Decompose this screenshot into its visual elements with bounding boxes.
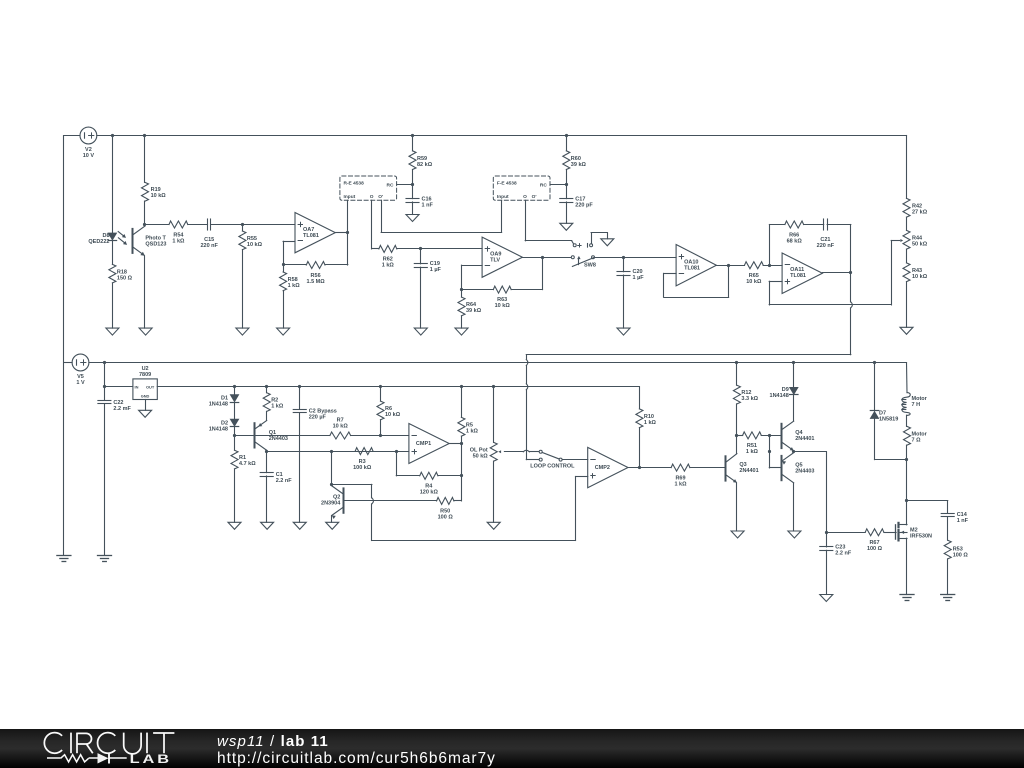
wire R66 branch	[769, 225, 785, 266]
resistor R66	[785, 221, 804, 228]
wire C15 to OA7	[211, 223, 295, 226]
label R1	[239, 455, 256, 467]
capacitor C21	[824, 219, 828, 230]
wire Q1 collector to node	[266, 449, 268, 452]
label R69	[674, 475, 687, 487]
wire R66 to C21	[804, 224, 824, 226]
node OA7 output	[346, 231, 349, 234]
svg-text:TL081: TL081	[303, 233, 319, 239]
svg-text:2.2 nF: 2.2 nF	[835, 550, 852, 556]
wire C14 to R53	[947, 517, 949, 541]
resistor R64	[458, 290, 465, 316]
label SW8	[584, 263, 596, 269]
wire R2 to Q1 emitter	[266, 411, 268, 420]
svg-text:10 kΩ: 10 kΩ	[912, 274, 928, 280]
label C1	[276, 472, 293, 484]
label D7	[879, 411, 898, 423]
resistor R54	[169, 221, 188, 228]
wire R65 to OA11	[763, 265, 782, 267]
logo resistor-diode glyph	[47, 757, 61, 759]
node R58/R56	[282, 263, 285, 266]
svg-text:1N4148: 1N4148	[209, 402, 228, 408]
wire R42 to R44	[906, 217, 908, 230]
ground below R58	[277, 328, 290, 335]
wire loop control down	[526, 355, 539, 460]
resistor R43	[903, 263, 910, 282]
op-amp OA11	[782, 253, 822, 294]
label M2	[910, 527, 932, 539]
svg-text:IRF530N: IRF530N	[910, 533, 932, 539]
node base tie mid	[768, 450, 771, 453]
transistor Q3	[726, 454, 737, 483]
ground below C16	[406, 215, 419, 222]
resistor R7	[330, 432, 351, 439]
resistor R63	[493, 286, 511, 293]
resistor R55	[239, 225, 246, 250]
ground below R18	[106, 328, 119, 335]
wire D9 to Q4	[793, 395, 795, 421]
wire V5 to left rail	[64, 362, 72, 364]
wire R4 to noninv	[396, 451, 419, 476]
resistor R42	[903, 198, 910, 217]
wire R-E RC pin	[397, 184, 413, 186]
svg-text:1N4148: 1N4148	[209, 426, 228, 432]
wire D1 to D2	[234, 403, 236, 420]
node D2/R1/Q1 base	[233, 434, 236, 437]
wire left rail down	[63, 136, 65, 556]
svg-text:1 V: 1 V	[76, 380, 85, 386]
resistor R59	[409, 136, 416, 185]
switch SW8	[571, 244, 594, 267]
svg-text:TL081: TL081	[790, 273, 806, 279]
label C2	[309, 409, 337, 421]
ground below C19	[414, 328, 427, 335]
wire Q2 collector up	[331, 451, 333, 485]
ground below C23	[820, 595, 833, 602]
label D1	[209, 396, 228, 408]
mosfet M2	[896, 523, 908, 541]
capacitor C16	[406, 184, 419, 202]
wire R6 to node	[380, 420, 382, 436]
svg-text:CMP2: CMP2	[595, 465, 610, 471]
label R64	[466, 302, 482, 314]
label Q5	[795, 463, 814, 475]
svg-text:1 nF: 1 nF	[422, 202, 434, 208]
resistor R67	[865, 529, 884, 536]
resistor R3	[355, 448, 373, 455]
wire to drain	[906, 460, 908, 525]
ground below R64	[455, 328, 468, 335]
ground below C20	[617, 328, 630, 335]
svg-text:QSD123: QSD123	[145, 242, 166, 248]
ground below U2	[139, 410, 152, 417]
resistor R12	[733, 363, 740, 436]
svg-text:10 kΩ: 10 kΩ	[495, 303, 511, 309]
wire to U2 IN	[104, 386, 132, 388]
svg-text:2N4401: 2N4401	[739, 468, 758, 474]
svg-text:10 kΩ: 10 kΩ	[746, 279, 762, 285]
wire V2 to left rail	[64, 135, 80, 137]
label R66	[787, 232, 803, 244]
pot R44	[903, 230, 910, 249]
label C15	[200, 237, 218, 249]
wire to loop control	[526, 354, 851, 356]
wire R1 to ground	[234, 469, 236, 522]
svg-text:OUT: OUT	[146, 385, 155, 390]
resistor R62	[379, 245, 397, 252]
op-amp OA10	[676, 245, 716, 286]
wire OA11 output	[823, 272, 851, 274]
wire photoT emitter to ground	[144, 256, 146, 328]
diode D1	[230, 387, 238, 403]
wire R-E O' pin	[381, 200, 501, 232]
label CMP2	[595, 465, 610, 471]
svg-text:100 Ω: 100 Ω	[867, 546, 883, 552]
ground left rail	[57, 556, 71, 562]
resistor R60	[563, 136, 570, 185]
wire R63 to OA9 output	[511, 257, 542, 289]
node OA9 output/R63	[541, 256, 544, 259]
wire C1 to ground	[266, 476, 268, 522]
svg-text:220 nF: 220 nF	[817, 243, 835, 249]
svg-text:O': O'	[378, 194, 383, 200]
transistor Q1	[255, 421, 267, 451]
wire R10 column	[639, 387, 641, 409]
wire OUT rail	[157, 385, 639, 388]
svg-text:1.5 MΩ: 1.5 MΩ	[307, 279, 326, 285]
wire OA11 noninv feedback	[769, 241, 891, 305]
wire D8 to R18	[112, 241, 114, 264]
svg-text:O: O	[370, 194, 374, 200]
comparator CMP1	[409, 424, 449, 464]
wire Q5 collector to ground	[793, 483, 795, 531]
label R54	[172, 233, 185, 245]
node R12/R51/Q3	[735, 434, 738, 437]
node Q4/Q5 emitter	[792, 450, 795, 453]
wire emitters to gate column	[794, 452, 827, 533]
wire CMP1 output down	[461, 444, 463, 476]
label R51	[746, 443, 759, 455]
one-shot R-E 4538 box	[340, 176, 397, 200]
svg-text:1N5819: 1N5819	[879, 417, 898, 423]
label CMP1	[416, 441, 431, 447]
ground below R55	[236, 328, 249, 335]
ground below M2	[900, 595, 914, 601]
wire R44 to R43	[906, 249, 908, 263]
ground below C17	[560, 223, 573, 230]
wire node down to R50	[461, 476, 463, 501]
wire node to R67	[826, 532, 865, 534]
ground below C22	[98, 556, 112, 562]
label D8	[88, 233, 109, 245]
label R12	[741, 390, 758, 402]
node CMP2 output	[638, 466, 641, 469]
label R55	[247, 236, 263, 248]
wire SW8 upper to ground	[591, 233, 607, 244]
wire OA11 out down	[851, 273, 853, 355]
label C19	[430, 261, 442, 273]
ground below Q5	[788, 531, 801, 538]
wire R51 to bases	[761, 435, 781, 437]
svg-text:100 kΩ: 100 kΩ	[353, 465, 372, 471]
label R5	[466, 422, 479, 434]
svg-text:SW8: SW8	[584, 263, 596, 269]
svg-text:220 nF: 220 nF	[200, 243, 218, 249]
wire R7 to CMP1	[351, 434, 409, 437]
wire R19 branch	[144, 136, 146, 183]
wire R43 to ground	[906, 282, 908, 328]
pot R44 wiper arrow	[891, 239, 903, 242]
resistor R19	[142, 182, 149, 201]
wire R62 to OA9	[397, 247, 482, 250]
wire snubber branch	[907, 501, 948, 514]
label R42	[912, 204, 928, 216]
wire R18 to ground	[112, 283, 114, 328]
wire OA7 inv input	[283, 241, 295, 265]
svg-text:R-E 4538: R-E 4538	[344, 181, 365, 187]
node Q2 collector	[330, 483, 333, 486]
node RC/R60/C17	[565, 183, 568, 186]
ground below OL Pot	[487, 522, 500, 529]
label R62	[382, 257, 395, 269]
wire C22 to ground	[104, 404, 106, 556]
svg-text:39 kΩ: 39 kΩ	[466, 308, 482, 314]
svg-text:10 kΩ: 10 kΩ	[247, 242, 263, 248]
wire node to R54	[145, 224, 169, 226]
wire node to R63	[462, 289, 494, 291]
capacitor C20	[617, 257, 630, 275]
svg-text:82 kΩ: 82 kΩ	[417, 162, 433, 168]
wire C16 to ground	[412, 202, 414, 215]
resistor R50	[437, 497, 454, 504]
wire R19 to node	[144, 201, 146, 224]
op-amp OA9	[482, 237, 522, 277]
wire R64 to ground	[461, 316, 463, 328]
svg-text:1 µF: 1 µF	[633, 275, 645, 281]
svg-text:27 kΩ: 27 kΩ	[912, 210, 928, 216]
label OL Pot	[470, 448, 489, 460]
svg-text:2N4403: 2N4403	[269, 436, 288, 442]
label OA10	[684, 260, 700, 272]
ground below phototransistor	[139, 328, 152, 335]
svg-text:10 V: 10 V	[83, 153, 95, 159]
wire M2 source to ground	[906, 538, 908, 594]
wire U2 GND	[145, 400, 147, 411]
label R2	[271, 398, 284, 410]
svg-text:O: O	[523, 194, 527, 200]
wire SW8 to OA10	[595, 256, 677, 259]
wire OA9 inv input	[462, 265, 483, 289]
resistor Motor 7ohm	[904, 426, 911, 445]
label R50	[438, 509, 454, 521]
svg-text:220 pF: 220 pF	[575, 202, 593, 208]
label Q1	[269, 430, 288, 442]
wire R4 to node	[438, 475, 462, 477]
resistor R18	[109, 264, 116, 283]
CircuitLab logo wordmark	[44, 733, 174, 767]
LED D8	[108, 232, 127, 245]
wire motor inductance to resistance	[906, 415, 908, 426]
svg-text:Input: Input	[344, 194, 356, 200]
ground below R1	[228, 522, 241, 529]
wire C17 to ground	[566, 202, 568, 223]
node motor/D7	[905, 458, 908, 461]
label R6	[385, 406, 401, 418]
wire D2 to node	[234, 427, 236, 436]
switch LOOP CONTROL	[539, 450, 562, 461]
label R10	[644, 414, 657, 426]
capacitor C15	[208, 219, 211, 230]
svg-text:50 kΩ: 50 kΩ	[473, 454, 489, 460]
label C14	[957, 512, 969, 524]
svg-text:7 H: 7 H	[912, 402, 921, 408]
node OA11 output	[849, 271, 852, 274]
svg-text:10 kΩ: 10 kΩ	[385, 412, 401, 418]
wire CMP2 feedback column	[372, 477, 588, 541]
wire F-E Input pin	[501, 200, 503, 232]
label Q3	[739, 462, 758, 474]
label R53	[953, 546, 969, 558]
wire right rail	[906, 136, 908, 199]
svg-text:2.2 nF: 2.2 nF	[276, 478, 293, 484]
wire R56 to OA7 output	[325, 233, 348, 265]
node CMP1 output	[460, 442, 463, 445]
svg-text:120 kΩ: 120 kΩ	[420, 490, 439, 496]
transistor Q4	[782, 421, 794, 451]
svg-text:LOOP CONTROL: LOOP CONTROL	[530, 463, 575, 469]
wire motor to drain node	[906, 445, 908, 460]
svg-text:TL081: TL081	[684, 266, 700, 272]
svg-text:LAB: LAB	[130, 753, 172, 767]
wire CMP2 output	[628, 467, 671, 469]
resistor R53	[944, 540, 951, 559]
label Q2	[321, 495, 341, 507]
wire switch to CMP2	[562, 459, 588, 461]
wire F-E RC pin	[550, 184, 566, 186]
svg-text:O': O'	[532, 194, 537, 200]
svg-text:7 Ω: 7 Ω	[912, 437, 922, 443]
label R4	[420, 484, 439, 496]
wire R-E Input pin	[347, 200, 349, 233]
ground below Q3	[731, 531, 744, 538]
resistor R6	[377, 387, 384, 420]
label R3	[353, 459, 372, 471]
svg-text:Input: Input	[497, 194, 509, 200]
label D2	[209, 420, 228, 432]
capacitor C1	[260, 451, 273, 476]
label R18	[117, 269, 133, 281]
svg-text:RC: RC	[387, 183, 394, 189]
pot OL Pot	[490, 387, 497, 523]
footer url text	[217, 750, 496, 768]
wire R54 to C15	[188, 224, 208, 226]
svg-text:68 kΩ: 68 kΩ	[787, 238, 803, 244]
wire C21 to OA11 output	[827, 225, 851, 274]
transistor Q5	[782, 453, 794, 483]
label R56	[307, 273, 326, 285]
label R19	[151, 187, 167, 199]
svg-text:3.3 kΩ: 3.3 kΩ	[741, 396, 758, 402]
label C23	[835, 544, 852, 556]
svg-text:7809: 7809	[139, 372, 151, 378]
wire R50 to Q2 base	[345, 500, 437, 502]
node Q4 base	[768, 434, 771, 437]
svg-text:1 kΩ: 1 kΩ	[746, 449, 759, 455]
svg-text:2N4403: 2N4403	[795, 469, 814, 475]
capacitor C17	[560, 184, 573, 202]
capacitor C23	[820, 532, 833, 550]
ground at SW8	[601, 239, 614, 246]
wire R67 to gate	[884, 532, 896, 534]
wire Q3 collector up	[736, 435, 738, 453]
label OA11	[790, 267, 806, 279]
ground below C2	[293, 522, 306, 529]
svg-text:10 kΩ: 10 kΩ	[151, 193, 167, 199]
ground below C1	[261, 522, 274, 529]
svg-text:100 Ω: 100 Ω	[953, 552, 969, 558]
phototransistor QSD123	[133, 226, 146, 256]
resistor R2	[263, 387, 270, 412]
wire R69 to Q3	[690, 467, 726, 469]
ground below Q2	[326, 522, 339, 529]
label D9	[770, 387, 789, 399]
resistor R56	[306, 262, 325, 269]
label R44	[912, 236, 928, 248]
label R58	[288, 277, 301, 289]
voltage source V2	[80, 127, 97, 159]
resistor R1	[231, 436, 238, 469]
wire OA10 feedback	[664, 265, 729, 297]
label OA7	[303, 227, 319, 239]
node R67/C23	[825, 531, 828, 534]
diode D2	[230, 419, 238, 426]
wire OA9 output	[522, 257, 571, 259]
comparator CMP2	[588, 447, 628, 487]
svg-text:2.2 mF: 2.2 mF	[113, 406, 131, 412]
svg-text:QED222: QED222	[88, 239, 109, 245]
label LOOP CONTROL	[530, 463, 575, 469]
wire C20 to ground	[623, 275, 625, 328]
svg-text:1 µF: 1 µF	[430, 267, 442, 273]
wire base tie	[769, 435, 781, 468]
op-amp OA7	[295, 213, 335, 253]
svg-text:1 kΩ: 1 kΩ	[382, 263, 395, 269]
label C17	[575, 196, 593, 208]
node OA10 output	[727, 264, 730, 267]
wire base to Q1	[235, 435, 330, 437]
svg-text:RC: RC	[540, 183, 547, 189]
label R43	[912, 268, 928, 280]
wire R-E O pin	[372, 200, 379, 249]
label Photo T	[145, 236, 166, 248]
resistor R69	[671, 464, 690, 471]
wire V5 rail	[89, 361, 907, 364]
diode D7	[870, 363, 878, 419]
label Motor 7ohm	[912, 431, 928, 443]
capacitor C14	[941, 514, 954, 517]
diode D9	[790, 363, 798, 395]
wire CMP1 output	[449, 443, 461, 445]
node RC/R59/C16	[411, 183, 414, 186]
label R7	[333, 418, 349, 430]
transistor Q2	[332, 486, 344, 519]
svg-text:1 kΩ: 1 kΩ	[172, 239, 185, 245]
svg-text:100 Ω: 100 Ω	[438, 515, 454, 521]
label C20	[633, 269, 645, 281]
wire C19 to ground	[420, 267, 422, 328]
resistor R58	[280, 265, 287, 291]
wire D7 to node	[875, 419, 908, 460]
